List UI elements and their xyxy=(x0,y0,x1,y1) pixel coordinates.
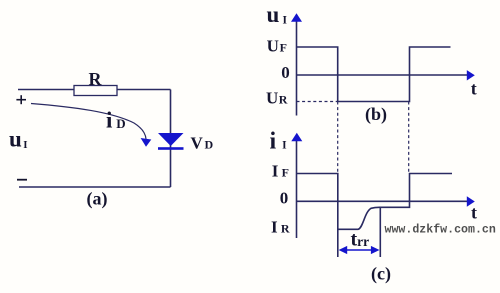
svg-text:uI: uI xyxy=(9,126,28,151)
svg-text:R: R xyxy=(89,69,103,89)
svg-text:0: 0 xyxy=(280,189,289,208)
diode VD symbol (blue triangle + cathode bar) xyxy=(158,133,184,150)
terminal plus sign xyxy=(16,95,26,104)
axis iI vertical (graph c) xyxy=(296,137,298,238)
dashed vertical t1 between graphs xyxy=(337,102,339,174)
svg-text:t: t xyxy=(471,202,477,222)
svg-text:VD: VD xyxy=(191,133,214,152)
wire: circuit bottom conductor xyxy=(19,186,171,188)
svg-text:UF: UF xyxy=(267,37,287,56)
dashed vertical t2 between graphs xyxy=(408,102,410,174)
svg-text:UR: UR xyxy=(266,88,288,107)
svg-text:t: t xyxy=(471,79,477,99)
boundary line left of trr xyxy=(337,229,339,257)
resistor R xyxy=(74,86,117,96)
axis t horizontal (graph c) xyxy=(297,200,469,202)
dimension arrow trr (double headed) xyxy=(339,246,380,254)
wire: circuit right vertical conductor xyxy=(170,90,172,188)
axis t horizontal (graph b) xyxy=(297,74,469,76)
terminal minus sign xyxy=(17,179,27,181)
boundary line right of trr xyxy=(379,208,381,257)
dashed UR level from axis xyxy=(297,101,338,103)
svg-text:www.dzkfw.com.cn: www.dzkfw.com.cn xyxy=(385,224,496,237)
svg-text:iD: iD xyxy=(106,107,126,132)
waveform uI square wave (graph b) xyxy=(297,47,451,102)
wire: circuit top conductor xyxy=(18,89,171,91)
svg-text:IF: IF xyxy=(272,162,289,181)
svg-text:uI: uI xyxy=(267,2,288,27)
svg-text:trr: trr xyxy=(351,228,370,250)
waveform iI with reverse recovery (graph c) xyxy=(297,174,453,230)
svg-text:0: 0 xyxy=(281,63,290,82)
svg-text:(b): (b) xyxy=(365,104,387,125)
svg-text:(a): (a) xyxy=(87,189,108,210)
svg-text:iI: iI xyxy=(270,129,288,155)
svg-text:(c): (c) xyxy=(371,264,391,285)
current arrow iD (curved) xyxy=(31,104,146,140)
svg-text:IR: IR xyxy=(271,217,290,236)
axis uI vertical (graph b) xyxy=(296,18,298,116)
